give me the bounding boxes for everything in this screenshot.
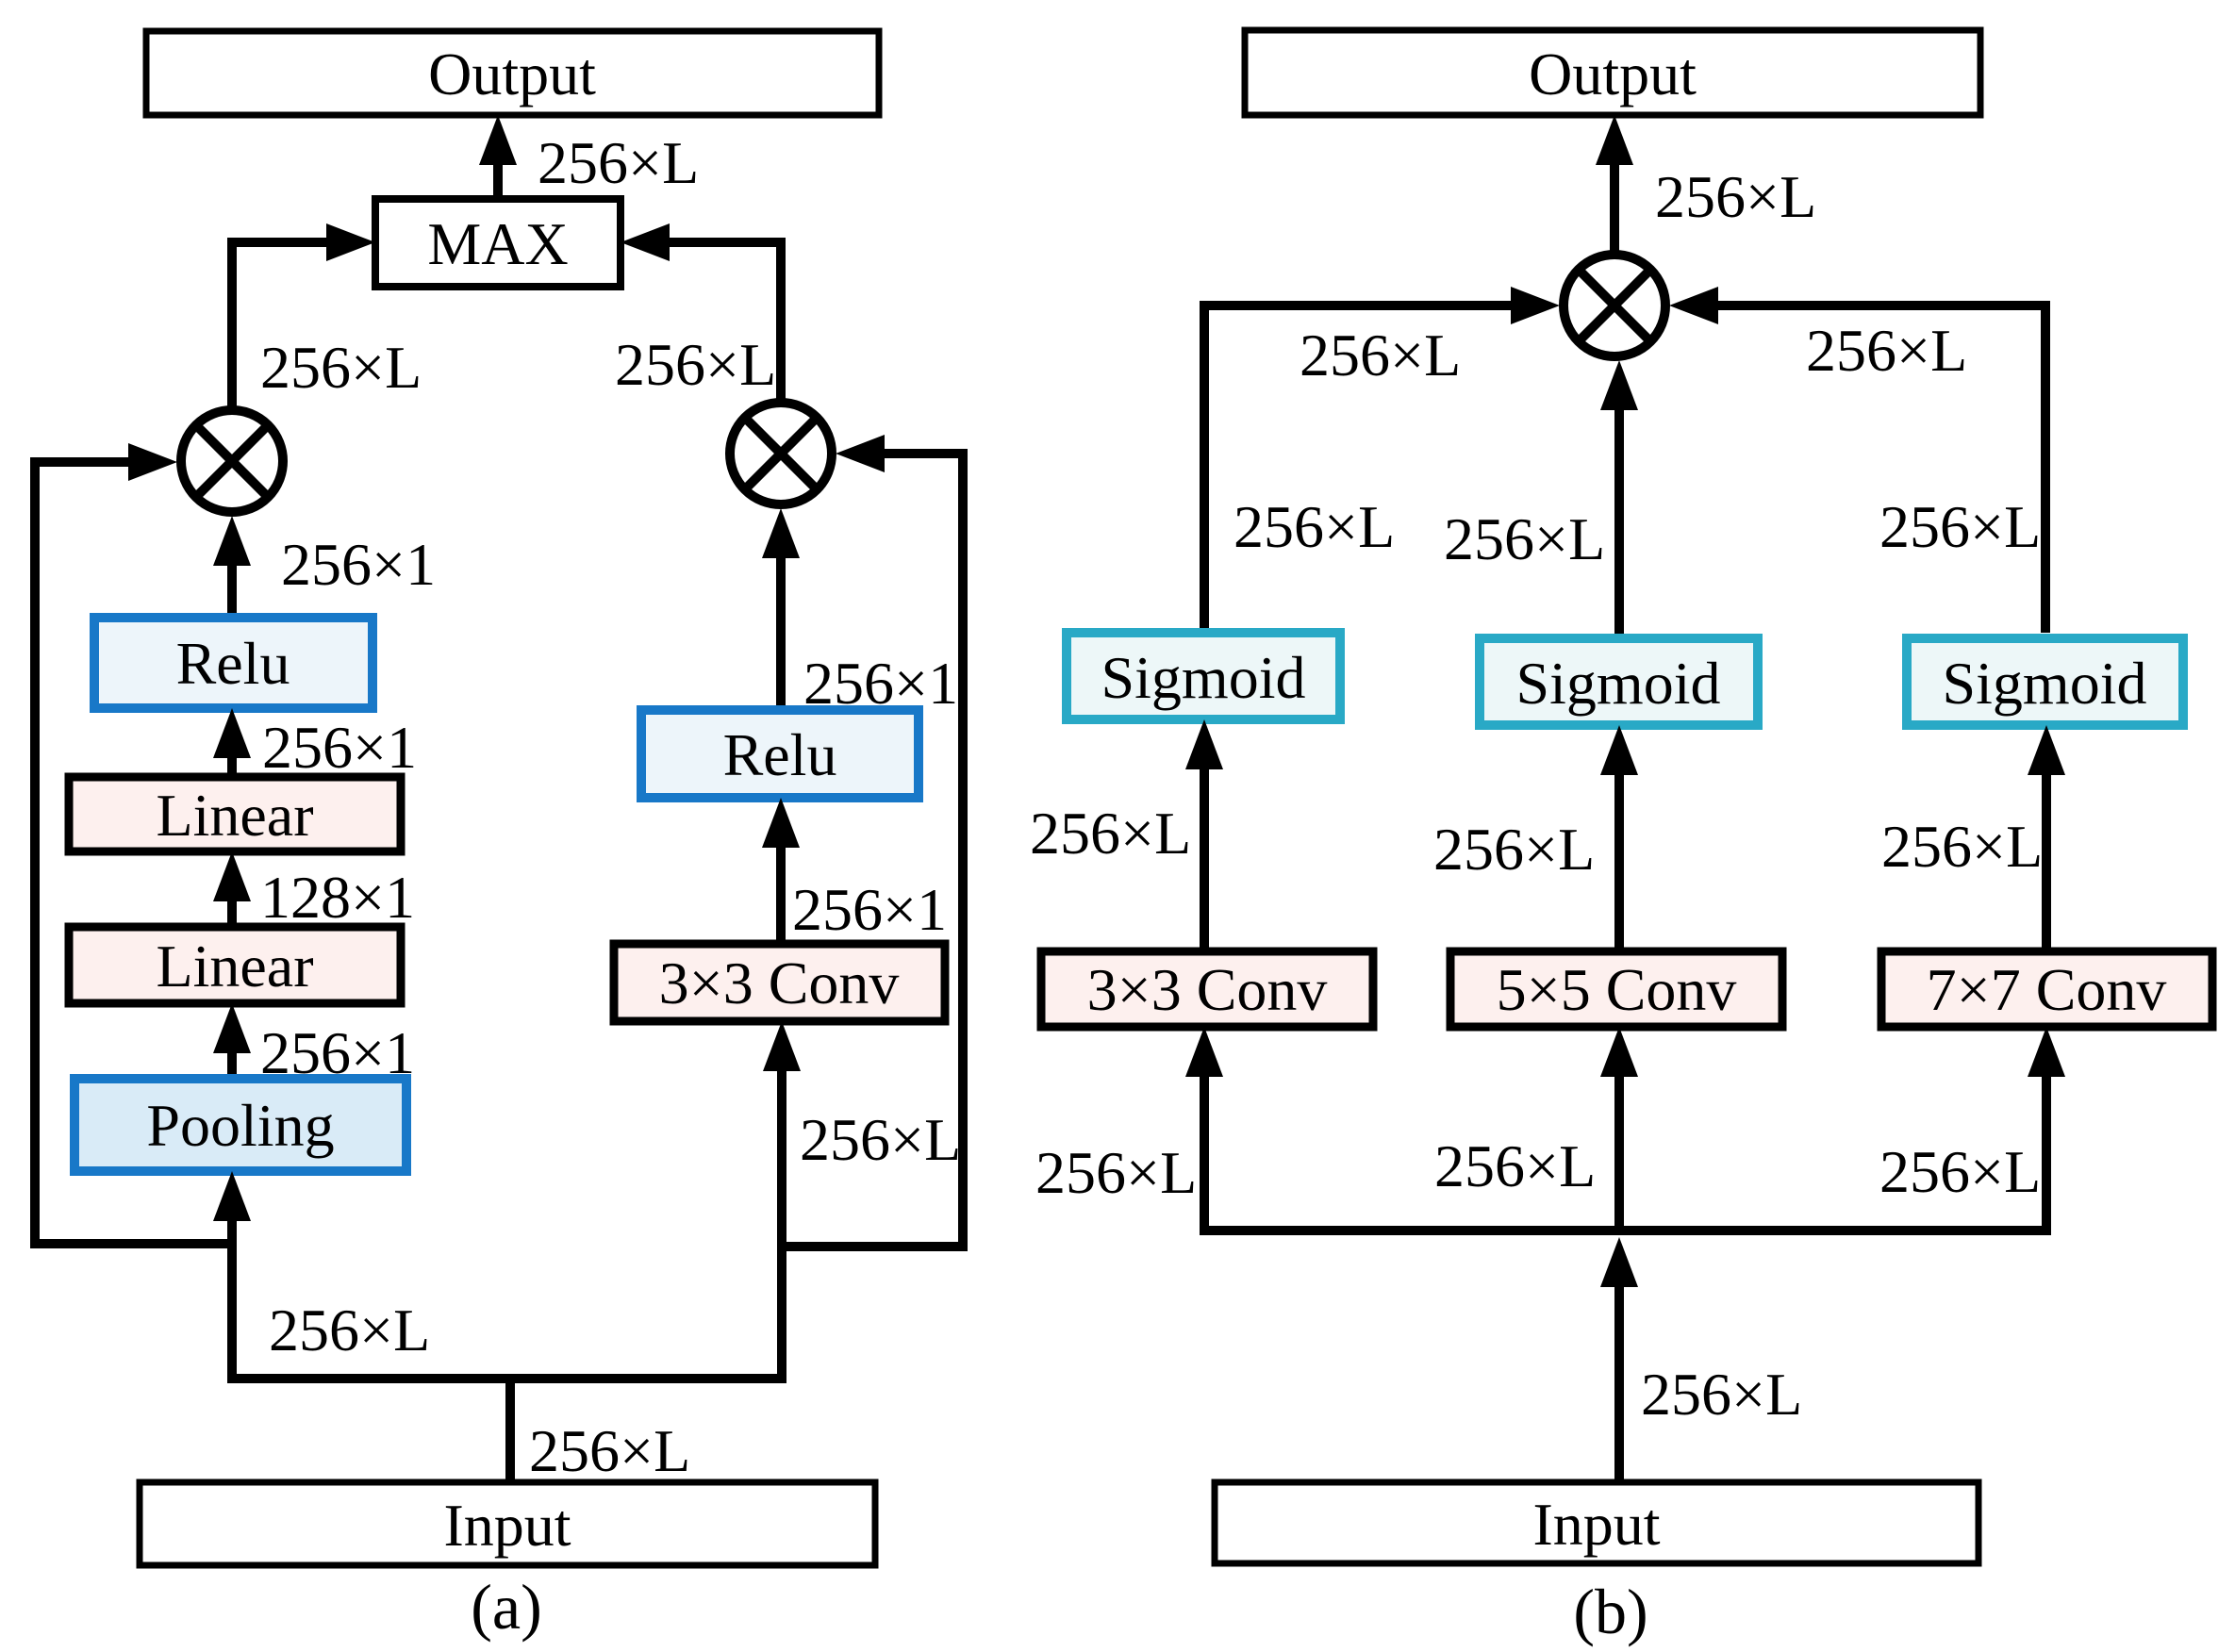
box 7x7 Conv (b) — [1881, 951, 2212, 1027]
label 256xL above Input (b) — [1641, 1361, 1802, 1428]
svg-text:256×L: 256×L — [1641, 1361, 1802, 1428]
box Linear2 (a) — [69, 927, 401, 1003]
svg-text:256×1: 256×1 — [281, 531, 436, 598]
multiply node right (a) — [730, 403, 832, 504]
svg-text:256×1: 256×1 — [792, 876, 947, 943]
svg-text:256×L: 256×L — [260, 334, 422, 401]
arrow Conv5 to Sigmoid2 (b) — [1600, 725, 1638, 951]
wire Input to split (a) — [505, 1374, 515, 1482]
wire split line (a) — [227, 1374, 786, 1383]
svg-text:256×L: 256×L — [1879, 493, 2041, 560]
svg-text:128×1: 128×1 — [260, 864, 415, 931]
label 256x1 above Relu right (a) — [803, 650, 958, 717]
arrow Linear2 to Linear1 (a) — [213, 851, 251, 927]
svg-text:Output: Output — [428, 41, 596, 107]
svg-text:Linear: Linear — [157, 933, 314, 999]
label 256xL left vertical (b) — [1233, 493, 1395, 560]
arrow Input to split (b) — [1600, 1237, 1638, 1482]
box 3x3 Conv (a) — [614, 944, 945, 1021]
svg-text:Sigmoid: Sigmoid — [1101, 644, 1306, 711]
label 256xL top (b) — [1655, 163, 1816, 230]
box Sigmoid1 (b) — [1067, 633, 1340, 719]
box Input (b) — [1215, 1482, 1978, 1563]
caption (a) — [471, 1571, 541, 1643]
svg-text:256×L: 256×L — [1035, 1139, 1197, 1206]
label 256xL below line right (b) — [1806, 317, 1967, 384]
box Input (a) — [140, 1482, 875, 1565]
svg-text:256×L: 256×L — [1881, 813, 2043, 880]
svg-text:256×L: 256×L — [1300, 322, 1461, 388]
arrow Pooling to Linear2 (a) — [213, 1003, 251, 1079]
svg-text:256×L: 256×L — [529, 1417, 690, 1484]
svg-text:Relu: Relu — [723, 721, 837, 788]
caption (b) — [1573, 1576, 1647, 1647]
arrow split to Conv5 (b) — [1600, 1027, 1638, 1231]
label 256xL bottom left (b) — [1035, 1139, 1197, 1206]
box Relu left (a) — [94, 618, 372, 708]
svg-text:Sigmoid: Sigmoid — [1943, 650, 2147, 717]
svg-text:256×L: 256×L — [1879, 1138, 2041, 1205]
box Relu right (a) — [641, 710, 919, 798]
arrow multiply to Output (b) — [1596, 115, 1633, 251]
svg-text:256×L: 256×L — [1433, 816, 1595, 883]
box Sigmoid3 (b) — [1907, 638, 2183, 725]
wire bypass left (a) — [35, 443, 232, 1244]
svg-text:256×1: 256×1 — [262, 714, 417, 781]
wire right branch into MAX — [621, 223, 781, 400]
svg-text:3×3 Conv: 3×3 Conv — [1087, 956, 1328, 1023]
label 256xL bottom right (b) — [1879, 1138, 2041, 1205]
arrow split to Conv (a) — [763, 1021, 801, 1379]
label 256x1 Linear1-Relu (a) — [262, 714, 417, 781]
svg-text:256×L: 256×L — [1434, 1132, 1596, 1199]
arrow MAX to Output (a) — [479, 115, 517, 199]
box 3x3 Conv (b) — [1041, 951, 1373, 1027]
svg-text:256×L: 256×L — [1233, 493, 1395, 560]
box Output (a) — [146, 31, 879, 115]
wire split line (b) — [1200, 1226, 2051, 1235]
multiply node (b) — [1564, 255, 1665, 356]
svg-text:256×L: 256×L — [1655, 163, 1816, 230]
arrow Linear1 to Relu (a) — [213, 708, 251, 777]
svg-text:Output: Output — [1529, 41, 1697, 107]
svg-text:256×L: 256×L — [1444, 505, 1605, 572]
arrow Conv3 to Sigmoid1 (b) — [1185, 719, 1223, 951]
svg-text:Input: Input — [443, 1492, 571, 1559]
box Output (b) — [1245, 30, 1980, 115]
box MAX — [375, 199, 621, 287]
svg-text:256×L: 256×L — [800, 1106, 961, 1173]
svg-text:Sigmoid: Sigmoid — [1516, 650, 1721, 717]
label 256x1 Pooling-Linear2 (a) — [260, 1019, 415, 1086]
svg-text:Linear: Linear — [157, 782, 314, 849]
svg-text:7×7 Conv: 7×7 Conv — [1927, 956, 2167, 1023]
label 256xL Conv3-Sigmoid1 (b) — [1030, 800, 1191, 867]
arrow split to Pooling (a) — [213, 1171, 251, 1379]
svg-text:256×L: 256×L — [269, 1297, 430, 1363]
label 128x1 (a) — [260, 864, 415, 931]
svg-text:(b): (b) — [1573, 1576, 1647, 1647]
label 256xL middle vertical (b) — [1444, 505, 1605, 572]
label 256xL below line left (b) — [1300, 322, 1461, 388]
wire left column to multiply (b) — [1204, 287, 1560, 633]
svg-text:Pooling: Pooling — [146, 1092, 334, 1159]
arrow split to Conv3 (b) — [1185, 1027, 1223, 1231]
svg-text:Input: Input — [1532, 1491, 1660, 1558]
label 256xL left branch (a) — [260, 334, 422, 401]
label 256xL above Input (a) — [529, 1417, 690, 1484]
label 256xL Conv7-Sigmoid3 (b) — [1881, 813, 2043, 880]
label 256xL bottom middle (b) — [1434, 1132, 1596, 1199]
box Pooling (a) — [74, 1079, 406, 1171]
arrow Conv to Relu2 (a) — [762, 798, 800, 944]
label 256xL right branch (a) — [615, 331, 776, 398]
arrow middle column to multiply (b) — [1600, 360, 1638, 638]
label 256x1 Conv-Relu2 (a) — [792, 876, 947, 943]
arrow Relu2 to multiply right (a) — [762, 508, 800, 710]
label 256xL Conv5-Sigmoid2 (b) — [1433, 816, 1595, 883]
wire right column to multiply (b) — [1669, 287, 2045, 633]
label 256xL bypass right (a) — [800, 1106, 961, 1173]
svg-text:Relu: Relu — [176, 630, 290, 697]
label 256x1 above Relu left (a) — [281, 531, 436, 598]
box Sigmoid2 (b) — [1480, 638, 1758, 725]
label 256xL right vertical (b) — [1879, 493, 2041, 560]
arrow Conv7 to Sigmoid3 (b) — [2028, 725, 2065, 951]
svg-text:256×L: 256×L — [615, 331, 776, 398]
svg-text:5×5 Conv: 5×5 Conv — [1497, 956, 1737, 1023]
multiply node left (a) — [181, 410, 283, 512]
box 5x5 Conv (b) — [1450, 951, 1782, 1027]
label 256xL bottom left (a) — [269, 1297, 430, 1363]
svg-text:256×L: 256×L — [1030, 800, 1191, 867]
arrow split to Conv7 (b) — [2028, 1027, 2065, 1231]
svg-text:256×L: 256×L — [538, 129, 699, 196]
svg-text:3×3 Conv: 3×3 Conv — [659, 950, 900, 1016]
wire bypass right (a) — [782, 435, 963, 1247]
label 256xL top (a) — [538, 129, 699, 196]
svg-text:(a): (a) — [471, 1571, 541, 1643]
box Linear1 (a) — [69, 777, 401, 851]
svg-text:MAX: MAX — [427, 210, 568, 277]
svg-text:256×L: 256×L — [1806, 317, 1967, 384]
arrow Relu to multiply left (a) — [213, 516, 251, 618]
wire left branch into MAX — [232, 223, 375, 408]
